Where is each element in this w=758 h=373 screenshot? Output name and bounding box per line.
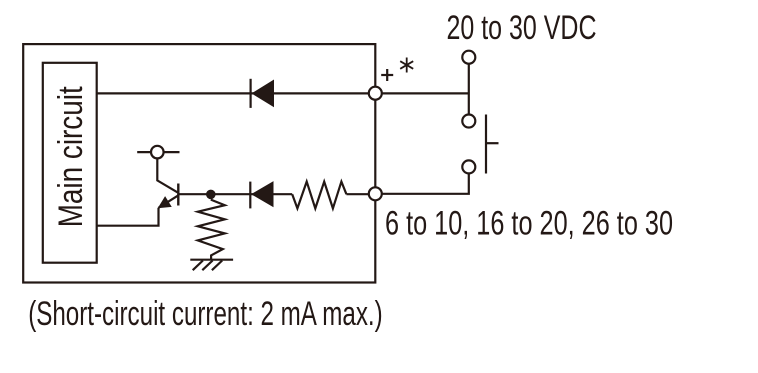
main circuit block xyxy=(43,63,97,263)
ground xyxy=(190,260,233,271)
switch actuator bar xyxy=(486,115,499,174)
node 2 (output terminal, middle) xyxy=(369,187,382,200)
node 1 (output terminal, top) xyxy=(369,87,382,100)
diode (top wire) xyxy=(251,79,274,108)
device outline box xyxy=(23,44,375,282)
svg-text:20 to 30 VDC: 20 to 30 VDC xyxy=(447,9,597,47)
resistor (vertical, to ground) xyxy=(198,200,225,260)
diode (middle wire) xyxy=(250,182,273,209)
wire: main circuit to node 1 (top) xyxy=(97,92,376,94)
resistor (horizontal, middle wire) xyxy=(292,182,346,209)
supply terminal (20-30 VDC) xyxy=(462,51,475,64)
wire: node 1 to switch branch xyxy=(375,92,469,94)
svg-text:6 to 10, 16 to 20, 26 to 30: 6 to 10, 16 to 20, 26 to 30 xyxy=(385,205,673,243)
switch contact (upper) xyxy=(462,115,475,128)
svg-text:(Short-circuit current: 2 mA m: (Short-circuit current: 2 mA max.) xyxy=(28,295,383,333)
wire: switch contact down and left to node 2 xyxy=(375,173,469,193)
wire: emitter down and left to main circuit xyxy=(97,208,159,226)
junction dot xyxy=(206,190,216,200)
current source circle (transistor top) xyxy=(151,146,164,159)
switch contact (lower) xyxy=(462,160,475,173)
footnote asterisk * xyxy=(400,58,413,73)
transistor (NPN) xyxy=(137,152,179,208)
wire: terminal to switch contact xyxy=(468,64,470,115)
svg-text:Main circuit: Main circuit xyxy=(52,86,90,227)
polarity label + xyxy=(381,69,393,81)
wire: transistor base to node 2 (middle) xyxy=(178,193,375,195)
